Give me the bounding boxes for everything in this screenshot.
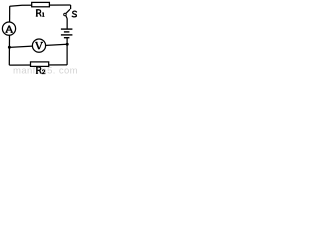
wire bottom side: [9, 64, 67, 66]
voltmeter letter V: [35, 42, 43, 49]
wire left side: [8, 6, 10, 65]
voltmeter V circle: [32, 39, 45, 52]
switch S blade (open): [66, 9, 70, 13]
switch S pivot circle: [64, 13, 67, 16]
battery cell 1 short plate: [64, 31, 70, 33]
node junction dot left: [8, 46, 11, 49]
resistor label R1: [36, 10, 45, 17]
svg-text:manfen5. com: manfen5. com: [13, 65, 78, 75]
resistor R2 box: [31, 62, 49, 67]
node junction dot right: [66, 43, 69, 46]
ammeter letter A: [5, 26, 12, 33]
wire right side switch to battery top plate: [66, 19, 68, 29]
ammeter A circle: [2, 22, 15, 35]
wire right side battery bottom plate to corner: [66, 38, 68, 65]
wire top side: [10, 5, 71, 6]
wire stub to switch fixed contact: [70, 5, 72, 9]
battery cell 1 long plate: [61, 28, 73, 30]
wire voltmeter branch: [9, 44, 67, 47]
switch label S: [72, 11, 76, 17]
switch S link to lower wire: [66, 16, 67, 19]
resistor R1 box: [32, 2, 50, 6]
battery cell 2 long plate: [61, 34, 73, 36]
resistor label R2: [36, 67, 46, 74]
battery cell 2 short plate: [64, 37, 70, 39]
